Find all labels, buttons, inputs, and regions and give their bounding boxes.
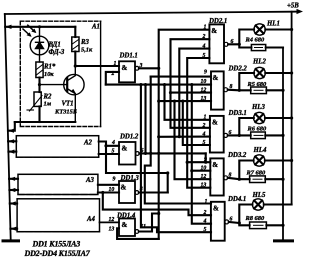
- lamp HL4: [254, 155, 265, 166]
- svg-text:&: &: [122, 145, 128, 153]
- wire net V_H (DD2.1 pin5 / DD3.2 pin9 / DD3.2 pin13): [187, 58, 210, 188]
- svg-text:5: 5: [203, 53, 206, 59]
- wire A2 taps: [8, 140, 16, 142]
- lamp HL5: [252, 199, 263, 210]
- svg-text:1: 1: [205, 199, 208, 205]
- wire net h2 (DD1.1 pin2 to DD2.2 pin10 rail): [106, 84, 211, 86]
- wire net A3 pin10 to DD4.1 pin2: [103, 193, 211, 216]
- wire DD4.1 out to HL5 node: [229, 205, 253, 226]
- wire net vj (DD1.3 out8 tie): [106, 146, 168, 193]
- wire DD1.1 output 3: [139, 67, 159, 69]
- wire net V_D (DD1.1 out3 / DD2.1 pin1 / DD2.2 pin13 / DD3.1 pin4): [159, 30, 211, 239]
- wire R3 bottom to collector node: [74, 52, 76, 67]
- wire net V_G (DD2.1 pin4 / DD3.1 pin4 dot / DD3.2 pin12): [179, 49, 209, 137]
- resistor R3: [74, 27, 76, 37]
- lamp HL3: [254, 112, 265, 123]
- wire DD3.1 out to HL3 node: [228, 118, 254, 135]
- svg-text:1: 1: [204, 115, 207, 121]
- IC DD4.1: [211, 202, 225, 241]
- wire DD1.1 pin2: [106, 72, 119, 85]
- wire net V_F (DD2.1 pin2 / DD2.2 pin12 / DD3.1 pin2): [171, 39, 212, 128]
- svg-text:+5В: +5В: [287, 3, 299, 10]
- svg-text:2: 2: [202, 123, 206, 129]
- svg-text:1: 1: [204, 25, 207, 31]
- svg-text:12: 12: [201, 88, 207, 94]
- wire A2 out upper to DD1.2 pin4: [99, 142, 119, 146]
- svg-text:13: 13: [201, 183, 207, 189]
- svg-text:DD1.1: DD1.1: [119, 53, 138, 60]
- svg-text:DD3.2: DD3.2: [227, 152, 247, 159]
- logic gate DD1.2 (NAND): [119, 142, 136, 165]
- box A4: [17, 199, 99, 232]
- svg-text:4: 4: [203, 219, 207, 225]
- svg-text:10к: 10к: [44, 71, 54, 78]
- svg-text:4: 4: [111, 140, 115, 146]
- IC DD3.2: [210, 158, 223, 195]
- resistor R5: [251, 87, 267, 94]
- svg-text:DD4.1: DD4.1: [227, 196, 246, 203]
- resistor R6: [251, 132, 266, 139]
- svg-text:10: 10: [201, 79, 207, 85]
- svg-text:ФД-3: ФД-3: [49, 49, 65, 56]
- svg-text:&: &: [122, 64, 128, 72]
- svg-text:5: 5: [204, 227, 207, 233]
- resistor R1: [36, 62, 43, 78]
- svg-text:R7 680: R7 680: [246, 170, 266, 177]
- transistor VT1: [40, 66, 85, 122]
- svg-text:5: 5: [112, 149, 115, 155]
- svg-text:5: 5: [203, 140, 206, 146]
- logic gate DD1.3 (NAND): [119, 181, 135, 203]
- svg-text:НL2: НL2: [252, 59, 266, 66]
- IC DD3.1: [210, 116, 224, 153]
- wire DD1.2 out long run to DD3.2 pin9: [205, 153, 207, 162]
- wire net V_E (DD3.1 pin1): [165, 85, 210, 120]
- wire net vg (DD3.1 pin5): [183, 101, 210, 145]
- box A1: [20, 21, 100, 126]
- light arrows into VD1: [23, 29, 30, 36]
- svg-text:9: 9: [113, 177, 116, 183]
- svg-text:DD1.4: DD1.4: [116, 212, 136, 219]
- svg-text:&: &: [211, 27, 217, 35]
- svg-text:А1: А1: [91, 24, 100, 31]
- svg-text:DD2.1: DD2.1: [208, 18, 227, 25]
- wire net V_A to DD4.1 pin5: [141, 85, 211, 233]
- svg-text:10: 10: [201, 166, 207, 172]
- wire net V_C (DD2.2 pin9 to DD4.1 pin1): [151, 76, 211, 78]
- ground left: [3, 239, 19, 242]
- resistor R2 trimmer: [34, 92, 41, 106]
- wire DD2.1 out to HL1 node: [228, 30, 254, 48]
- wire +5V right rail: [291, 12, 293, 205]
- wire +5V top bus: [5, 12, 298, 14]
- svg-text:А3: А3: [85, 177, 95, 184]
- svg-text:&: &: [213, 205, 219, 213]
- svg-text:VТ1: VТ1: [62, 101, 74, 108]
- wire DD1.2 output: [139, 152, 205, 154]
- wire net V_I (DD3.2 pin10 / DD4.1 pin4): [192, 85, 211, 224]
- wire DD3.2 out to HL4 node: [228, 161, 254, 180]
- wire left bus: [5, 14, 11, 240]
- svg-text:&: &: [212, 119, 218, 127]
- svg-text:1м: 1м: [44, 101, 52, 108]
- node +5V arrowhead: [297, 9, 304, 14]
- lamp HL2: [254, 67, 265, 78]
- node junction dot collector: [74, 64, 77, 67]
- svg-text:R3: R3: [80, 39, 90, 46]
- wire DD1.3 output: [139, 191, 168, 193]
- svg-text:НL4: НL4: [253, 147, 267, 154]
- wire net V_B: [144, 85, 146, 154]
- IC DD2.2: [211, 71, 224, 109]
- svg-text:9: 9: [204, 157, 207, 163]
- svg-text:DD2.2: DD2.2: [228, 66, 248, 73]
- IC DD2.1: [209, 24, 224, 63]
- wire R1 to base node: [38, 78, 40, 93]
- svg-text:А2: А2: [83, 140, 93, 147]
- svg-text:DD2-DD4 К155ЛА7: DD2-DD4 К155ЛА7: [24, 249, 91, 258]
- svg-text:ВД1: ВД1: [48, 42, 61, 49]
- wire A3 out to DD1.3 pin10: [98, 191, 119, 193]
- svg-text:13: 13: [109, 227, 115, 233]
- svg-text:9: 9: [204, 70, 207, 76]
- svg-text:НL5: НL5: [252, 192, 266, 199]
- svg-text:R2: R2: [43, 94, 53, 101]
- logic gate DD1.4 (NAND): [119, 219, 135, 237]
- svg-text:DD3.1: DD3.1: [228, 110, 247, 117]
- photodiode VD1: [30, 27, 49, 62]
- wire resistor return rail: [282, 48, 284, 241]
- svg-text:2: 2: [203, 210, 207, 216]
- svg-text:R4 680: R4 680: [245, 37, 265, 44]
- logic gate DD1.1 (NAND): [119, 61, 135, 82]
- svg-text:4: 4: [202, 131, 206, 137]
- svg-text:12: 12: [109, 217, 115, 223]
- svg-text:R5 680: R5 680: [247, 81, 267, 88]
- svg-text:DD1.3: DD1.3: [120, 175, 140, 182]
- svg-text:4: 4: [202, 43, 206, 49]
- wire A3 out to DD1.3 pin9: [98, 184, 119, 186]
- svg-text:А4: А4: [86, 216, 96, 223]
- node junction dot VD1 top: [38, 25, 41, 28]
- svg-text:13: 13: [201, 96, 207, 102]
- svg-text:12: 12: [201, 174, 207, 180]
- svg-text:КТ315Б: КТ315Б: [54, 109, 77, 116]
- wire A3 taps: [9, 178, 18, 180]
- svg-text:DD1 К155ЛА3: DD1 К155ЛА3: [32, 240, 81, 249]
- svg-text:1: 1: [114, 61, 117, 67]
- svg-text:НL3: НL3: [251, 104, 265, 111]
- ground right: [275, 239, 293, 242]
- svg-text:R1*: R1*: [43, 64, 56, 71]
- wire net V_K (DD3.2 pin12): [175, 101, 211, 179]
- wire A2 out lower to DD1.2 pin5: [99, 153, 119, 155]
- wire A1 output to DD1.1 pin1: [75, 65, 119, 67]
- node junction dot base: [38, 83, 41, 86]
- svg-text:10: 10: [109, 187, 115, 193]
- svg-text:R6 680: R6 680: [247, 126, 267, 133]
- resistor R4: [251, 45, 265, 51]
- lamp HL1: [254, 24, 265, 35]
- svg-text:&: &: [122, 221, 128, 229]
- svg-text:R8 680: R8 680: [245, 215, 265, 222]
- wire DD1.4 pin13 route: [117, 214, 159, 239]
- box A2: [16, 136, 98, 158]
- wire A4 out to DD1.4 pin12: [100, 221, 120, 223]
- svg-text:&: &: [121, 184, 127, 192]
- svg-text:2: 2: [202, 34, 206, 40]
- wire A1 common bottom: [15, 121, 76, 123]
- box A3: [18, 174, 98, 194]
- svg-text:НL1: НL1: [266, 21, 280, 28]
- wire A1 supply tap: [5, 26, 75, 28]
- svg-text:5,1к: 5,1к: [81, 47, 93, 54]
- svg-text:DD1.2: DD1.2: [119, 134, 139, 141]
- wire R2 bottom to common: [38, 106, 40, 122]
- resistor R7: [250, 176, 266, 183]
- wire A4 taps: [10, 202, 17, 204]
- svg-text:&: &: [212, 161, 218, 169]
- wire DD2.2 out to HL2 node: [228, 73, 254, 90]
- resistor R8: [250, 222, 267, 229]
- svg-text:&: &: [213, 74, 219, 82]
